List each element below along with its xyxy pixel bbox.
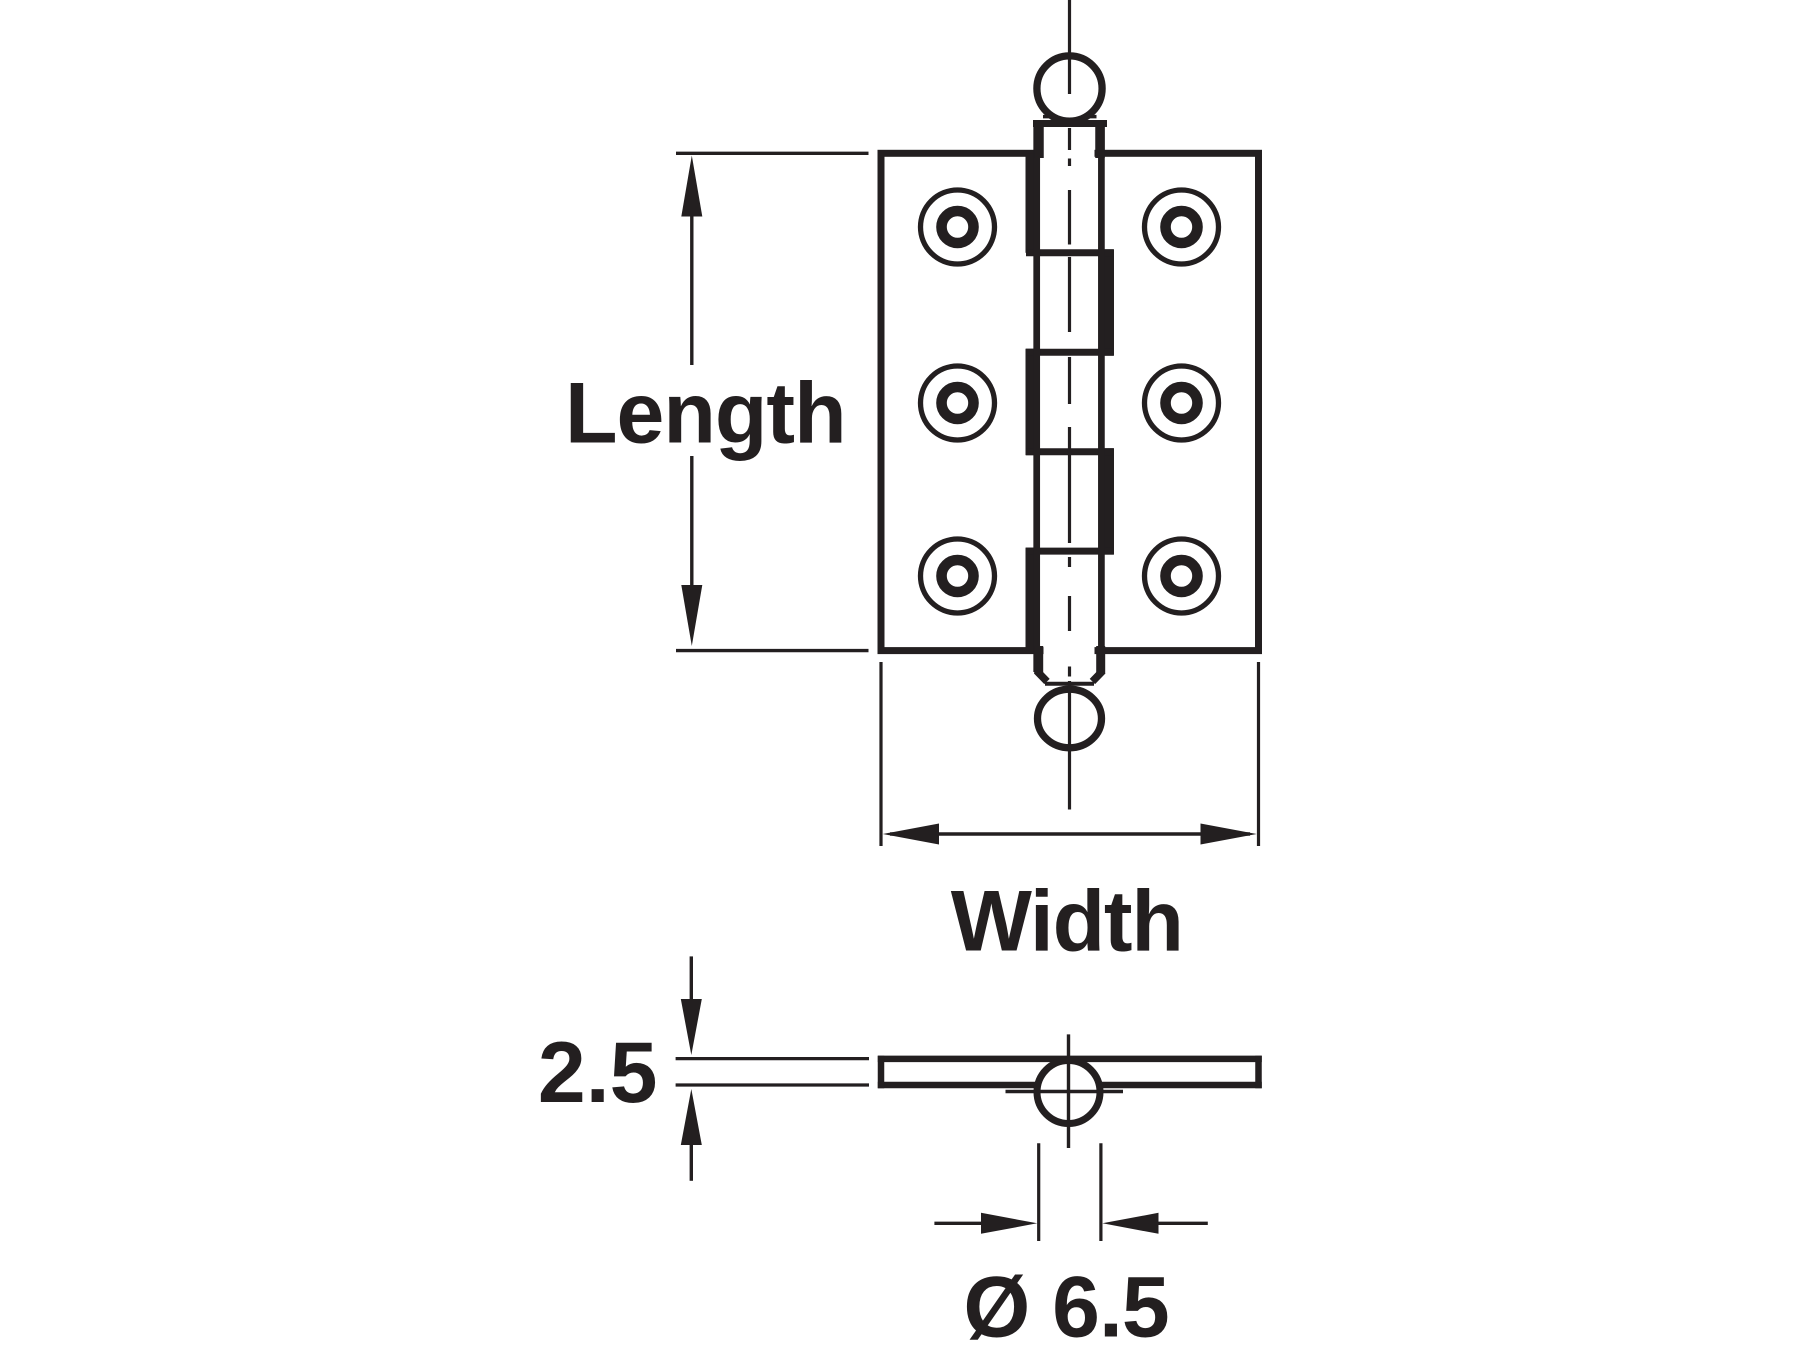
Length arrow up bbox=[681, 156, 702, 217]
side view leaf top edge bbox=[878, 1056, 1262, 1063]
screw hole middle-right bbox=[1145, 366, 1219, 440]
Width dimension: left extension line bbox=[879, 662, 882, 846]
Length dimension line upper segment bbox=[690, 210, 693, 365]
ball finial (top) bbox=[1037, 56, 1102, 121]
centerline (front view) bbox=[1068, 0, 1071, 810]
diameter 6.5 left arrow (points right) bbox=[981, 1213, 1037, 1234]
pin circle crosshair vertical bbox=[1067, 1034, 1070, 1148]
2.5 dimension: bottom extension line bbox=[676, 1083, 869, 1086]
pin shaft side wall right (bottom) bbox=[1096, 646, 1105, 674]
screw hole top-left bbox=[921, 190, 995, 264]
pin shaft gap over hinge top edge bbox=[1044, 146, 1095, 161]
side view leaf bottom edge bbox=[878, 1082, 1262, 1089]
ball seat line (bottom) bbox=[1045, 682, 1094, 686]
svg-text:Length: Length bbox=[565, 366, 846, 462]
svg-text:2.5: 2.5 bbox=[538, 1025, 658, 1121]
Length dimension: bottom extension line bbox=[676, 649, 869, 652]
screw hole middle-left bbox=[921, 366, 995, 440]
2.5 lower arrow (up) bbox=[681, 1089, 702, 1145]
pin circle white interior (side view) bbox=[1035, 1058, 1103, 1126]
Length dimension: top extension line bbox=[676, 152, 869, 155]
Width arrow right bbox=[1201, 824, 1257, 845]
2.5 dimension: top extension line bbox=[676, 1057, 869, 1060]
screw hole bottom-right bbox=[1145, 539, 1219, 613]
knuckle joint line 4 bbox=[1026, 548, 1114, 555]
knuckle joint line 3 bbox=[1026, 448, 1114, 455]
svg-text:Width: Width bbox=[951, 874, 1183, 970]
diameter 6.5 dimension: left extension line bbox=[1037, 1143, 1040, 1241]
Length dimension line lower segment bbox=[690, 456, 693, 589]
Width dimension line bbox=[890, 832, 1250, 835]
pin shaft gap over hinge bottom edge bbox=[1044, 643, 1095, 658]
pin circle crosshair horizontal bbox=[1006, 1090, 1124, 1093]
Width dimension: right extension line bbox=[1257, 662, 1260, 846]
pin circle (side view) bbox=[1037, 1061, 1100, 1124]
bottom neck taper right bbox=[1092, 671, 1102, 682]
knuckle bar segment 3 (left) bbox=[1026, 349, 1040, 456]
ball finial (bottom) bbox=[1038, 689, 1102, 748]
screw hole top-right bbox=[1145, 190, 1219, 264]
2.5 upper arrow line bbox=[690, 956, 693, 1002]
side view leaf left end cap bbox=[878, 1056, 885, 1089]
Length arrow down bbox=[681, 585, 702, 646]
knuckle bar segment 4 (right) bbox=[1101, 448, 1115, 554]
diameter 6.5 right arrow line bbox=[1154, 1222, 1208, 1225]
pin collar side wall right (top) bbox=[1095, 121, 1105, 158]
knuckle bar segment 5 (left) bbox=[1026, 548, 1040, 651]
ball seat line (top) bbox=[1043, 115, 1097, 119]
knuckle bar segment 2 (right) bbox=[1101, 249, 1115, 355]
bottom neck taper left bbox=[1037, 671, 1047, 682]
pin collar side wall left (top) bbox=[1034, 121, 1044, 158]
pin shaft left edge bbox=[1033, 122, 1040, 672]
pin shaft right edge bbox=[1098, 122, 1105, 672]
pin shaft side wall left (bottom) bbox=[1034, 646, 1043, 674]
knuckle joint line 2 bbox=[1026, 349, 1114, 356]
svg-text:Ø 6.5: Ø 6.5 bbox=[963, 1260, 1168, 1350]
knuckle bar segment 1 (left) bbox=[1026, 153, 1040, 253]
hinge leaf outline (front view) bbox=[881, 153, 1259, 650]
diameter 6.5 left arrow line bbox=[934, 1222, 985, 1225]
2.5 lower arrow line bbox=[690, 1142, 693, 1181]
Width arrow left bbox=[883, 824, 939, 845]
diameter 6.5 right arrow (points left) bbox=[1102, 1213, 1158, 1234]
2.5 upper arrow (down) bbox=[681, 999, 702, 1055]
side view leaf right end cap bbox=[1255, 1056, 1262, 1089]
diameter 6.5 dimension: right extension line bbox=[1099, 1143, 1102, 1241]
pin collar (top) bbox=[1033, 120, 1107, 127]
screw hole bottom-left bbox=[921, 539, 995, 613]
knuckle joint line 1 bbox=[1026, 249, 1114, 256]
